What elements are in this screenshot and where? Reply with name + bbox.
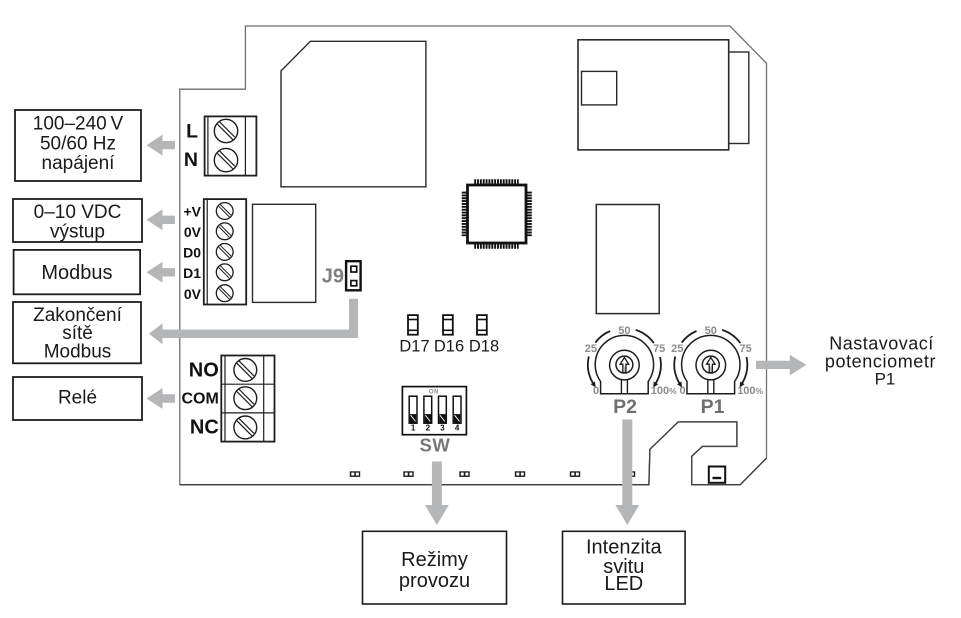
- led D17 package: [408, 315, 418, 335]
- svg-text:4: 4: [455, 423, 460, 432]
- svg-text:COM: COM: [181, 390, 218, 407]
- screw D0: [216, 244, 233, 261]
- svg-text:1: 1: [411, 423, 416, 432]
- screw 0V b: [216, 285, 233, 302]
- led D18 package: [477, 315, 487, 335]
- arrow right from P1 to Nastavovaci text: [756, 355, 806, 376]
- svg-text:0V: 0V: [184, 286, 202, 302]
- arrow to Modbus box: [147, 262, 176, 283]
- svg-text:Modbus: Modbus: [44, 341, 112, 362]
- ic U1 (QFP): [465, 182, 529, 246]
- screw +V: [216, 203, 233, 220]
- svg-text:75: 75: [653, 343, 665, 355]
- svg-text:P1: P1: [875, 370, 896, 389]
- screw NO: [234, 359, 257, 382]
- svg-text:50/60 Hz: 50/60 Hz: [40, 133, 116, 154]
- svg-text:0: 0: [679, 385, 685, 397]
- svg-text:napájení: napájení: [42, 153, 116, 174]
- dip switch lever 4: [453, 396, 461, 432]
- svg-text:N: N: [184, 149, 198, 171]
- pad 3: [459, 471, 469, 477]
- pad 4: [515, 471, 525, 477]
- svg-text:50: 50: [618, 325, 630, 337]
- svg-text:P2: P2: [613, 396, 637, 418]
- screw D1: [216, 264, 233, 281]
- arrow down from P2 to Intenzita box: [615, 420, 639, 526]
- svg-text:25: 25: [671, 343, 683, 355]
- arrow to power box: [147, 135, 176, 156]
- svg-text:ON: ON: [429, 389, 439, 395]
- screw L: [214, 119, 237, 142]
- dip switch SW: [402, 387, 466, 456]
- label box: 100-240 V power: [15, 110, 141, 181]
- svg-text:25: 25: [585, 343, 597, 355]
- svg-text:výstup: výstup: [50, 222, 105, 243]
- svg-text:0–10 VDC: 0–10 VDC: [34, 202, 122, 223]
- svg-text:100%: 100%: [651, 385, 677, 397]
- svg-text:75: 75: [739, 343, 751, 355]
- potentiometer P1: [671, 325, 763, 418]
- arrow down from SW to Rezimy box: [425, 462, 449, 526]
- screw N: [214, 148, 237, 171]
- terminal block X2 (+V 0V D0 D1 0V): [204, 199, 246, 304]
- jumper J9: [346, 261, 361, 290]
- wire from J9 to termination arrow: [161, 299, 358, 338]
- svg-text:0: 0: [593, 385, 599, 397]
- pad 1: [350, 471, 360, 477]
- screw NC: [234, 416, 257, 439]
- pad 2: [403, 471, 413, 477]
- terminal block X1 (L/N): [205, 116, 257, 175]
- label box: Modbus: [14, 250, 141, 294]
- label box: Zakonceni site Modbus: [13, 302, 141, 363]
- svg-text:D18: D18: [469, 338, 499, 356]
- svg-text:Režimy: Režimy: [401, 549, 468, 571]
- screw COM: [234, 387, 257, 410]
- svg-text:D17: D17: [399, 338, 429, 356]
- dip switch lever 1: [409, 396, 417, 432]
- svg-text:50: 50: [705, 325, 717, 337]
- svg-text:+V: +V: [183, 204, 201, 220]
- svg-text:J9: J9: [322, 265, 344, 287]
- component bottom-right small square: [709, 467, 725, 483]
- pad 5: [570, 471, 580, 477]
- svg-text:SW: SW: [419, 435, 450, 456]
- svg-text:provozu: provozu: [399, 570, 470, 592]
- svg-text:2: 2: [426, 423, 431, 432]
- label box: Rezimy provozu: [363, 531, 507, 604]
- svg-text:D0: D0: [183, 245, 201, 261]
- led D16 package: [443, 315, 453, 335]
- label box: 0-10 VDC: [13, 199, 142, 243]
- relay K1 (top-right block): [578, 40, 749, 150]
- svg-text:LED: LED: [604, 573, 643, 595]
- transformer T1 (top-left block with chamfer): [281, 41, 426, 187]
- dip switch lever 2: [424, 396, 432, 432]
- label box: Intenzita svitu LED: [563, 531, 686, 604]
- terminal block X3 (NO COM NC): [221, 356, 274, 442]
- svg-text:P1: P1: [701, 396, 725, 418]
- svg-text:Nastavovací: Nastavovací: [829, 333, 934, 353]
- dip switch lever 3: [439, 396, 447, 432]
- arrow to Rele box: [147, 388, 176, 409]
- label box: Rele: [13, 377, 142, 420]
- label: Nastavovaci potenciometr P1: [825, 333, 936, 388]
- svg-text:L: L: [186, 121, 198, 143]
- svg-text:0V: 0V: [184, 224, 202, 240]
- pad 6: [625, 471, 635, 477]
- svg-text:potenciometr: potenciometr: [825, 352, 936, 372]
- svg-text:Modbus: Modbus: [41, 262, 112, 284]
- solder pads bottom row: [350, 471, 635, 477]
- svg-text:3: 3: [440, 423, 445, 432]
- component U3 (tall rect below relay): [596, 205, 659, 314]
- potentiometer P2: [585, 325, 677, 418]
- screw 0V a: [216, 223, 233, 240]
- svg-text:Relé: Relé: [58, 388, 97, 409]
- pcb outline: [180, 26, 767, 485]
- svg-text:D16: D16: [434, 338, 464, 356]
- svg-text:100%: 100%: [737, 385, 763, 397]
- svg-text:D1: D1: [183, 265, 201, 281]
- svg-text:100–240 V: 100–240 V: [33, 114, 124, 135]
- arrow to 0-10 VDC box: [147, 209, 176, 230]
- arrow to Zakonceni box: [149, 323, 163, 344]
- svg-text:NC: NC: [190, 417, 219, 439]
- svg-text:NO: NO: [189, 359, 219, 381]
- component U2 (rect right of X2): [253, 204, 316, 302]
